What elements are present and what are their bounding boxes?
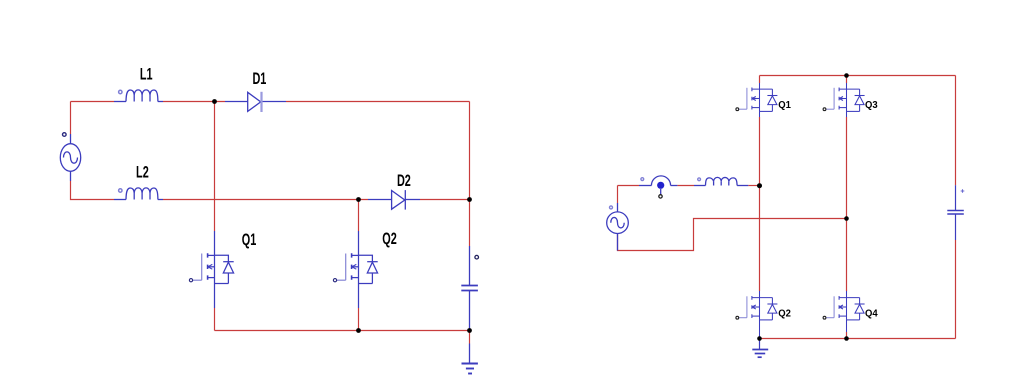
wire: right leg upper (rail to Q3 drain) — [846, 76, 848, 84]
wire: ground stub red — [469, 331, 471, 344]
junction: top rail / right leg — [844, 73, 849, 78]
terminal marker of ISEN1 — [641, 178, 644, 181]
wire: top rail — [760, 75, 956, 77]
junction: D2 / right rail — [467, 197, 472, 202]
wire: Q2 drain branch vertical — [358, 200, 360, 232]
wire: left leg middle (Q1 source to Q2 drain) — [759, 117, 761, 291]
inductor L2 — [114, 188, 163, 200]
svg-text:Q3: Q3 — [865, 100, 878, 111]
inductor L1 — [114, 90, 163, 102]
wire: capacitor branch top red — [469, 200, 471, 247]
wire: right rail — [955, 76, 957, 339]
wire: D2 to right rail — [420, 199, 469, 201]
gate terminal of Q2 (right) — [736, 316, 739, 319]
probe output terminal of ISEN1 — [659, 195, 662, 198]
wire: top rail D1 to right rail — [286, 101, 470, 103]
terminal marker of VS2 — [610, 206, 613, 209]
junction: top rail / Q1 drain — [212, 99, 217, 104]
polarity plus of C2 — [961, 189, 965, 193]
wire: Q1 source to bottom rail — [214, 308, 216, 331]
svg-text:Q2: Q2 — [778, 308, 791, 319]
wire: bottom rail — [215, 330, 470, 332]
mosfet Q3 (right circuit) — [826, 83, 864, 117]
capacitor C2 — [947, 185, 964, 240]
wire: source top vertical — [617, 186, 619, 204]
wire: source to current sensor — [618, 185, 640, 187]
wire: top rail left segment (source to L1) — [71, 101, 115, 103]
svg-text:D1: D1 — [252, 69, 266, 88]
svg-text:Q2: Q2 — [382, 229, 397, 248]
svg-text:L1: L1 — [140, 64, 153, 83]
gate terminal of Q2 — [333, 279, 336, 282]
terminal marker of L2 — [119, 189, 122, 192]
gate terminal of Q4 — [823, 316, 826, 319]
svg-text:Q1: Q1 — [778, 100, 791, 111]
wire: source top vertical — [70, 102, 72, 135]
wire: left leg upper (rail to Q1 drain) — [759, 76, 761, 84]
junction: left leg / bottom rail / ground — [757, 336, 762, 341]
wire: Q2 source to bottom rail — [358, 308, 360, 331]
junction: inductor / left leg — [757, 183, 762, 188]
svg-text:Q4: Q4 — [865, 308, 878, 319]
terminal marker of L1 — [119, 90, 122, 93]
junction: middle wire / right leg — [844, 216, 849, 221]
wire: current sensor to inductor — [677, 185, 694, 187]
AC source VS2 — [607, 203, 629, 251]
wire: right leg lower (Q4 source to bottom rail) — [846, 332, 848, 339]
diode D2 — [368, 190, 420, 210]
wire: right leg middle (Q3 source to Q4 drain) — [846, 117, 848, 291]
gate terminal of Q1 (right) — [736, 108, 739, 111]
gate terminal of Q1 — [189, 279, 192, 282]
AC source VS1 — [60, 134, 80, 181]
svg-text:D2: D2 — [397, 171, 411, 190]
wire: inductor to left leg junction — [748, 185, 759, 187]
wire: right rail vertical — [469, 102, 471, 200]
wire: bottom rail — [760, 338, 956, 340]
capacitor C1 — [461, 246, 478, 331]
inductor L3 — [694, 177, 748, 185]
ground (left circuit) — [462, 344, 478, 374]
terminal marker of VS1 — [63, 133, 67, 137]
cathode bar of D1 — [260, 92, 262, 112]
ground (right circuit) — [752, 339, 768, 358]
mosfet Q1 (left circuit) — [193, 231, 234, 308]
probe dot of ISEN1 — [657, 182, 664, 189]
mosfet Q2 (left circuit) — [337, 231, 378, 308]
svg-text:Q1: Q1 — [242, 229, 257, 248]
wire: source bottom vertical — [71, 181, 115, 200]
current sensor ISEN1 — [639, 176, 677, 195]
terminal marker of L3 — [698, 178, 701, 181]
wire: top rail L1 to junction to D1 — [163, 101, 225, 103]
junction: bottom rail / cap / ground — [467, 328, 472, 333]
junction: L2 / D2 / Q2 drain — [356, 197, 361, 202]
diode D1 — [225, 92, 286, 111]
junction: right leg / bottom rail — [844, 336, 849, 341]
gate terminal of Q3 — [823, 108, 826, 111]
mosfet Q4 (right circuit) — [826, 291, 864, 332]
junction: Q2 source / bottom rail — [356, 328, 361, 333]
mosfet Q1 (right circuit) — [739, 83, 777, 117]
svg-text:L2: L2 — [136, 162, 149, 181]
polarity terminal of C1 — [475, 255, 479, 259]
wire: Q1 drain branch vertical — [214, 102, 216, 232]
mosfet Q2 (right circuit) — [739, 291, 777, 339]
wire: source bottom loop — [618, 219, 847, 251]
wire: L2 row to D2 junction — [163, 199, 368, 201]
